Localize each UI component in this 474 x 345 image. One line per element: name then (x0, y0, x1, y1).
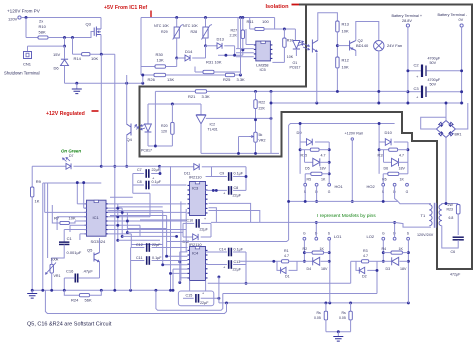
svg-text:R15: R15 (301, 154, 308, 158)
svg-text:IC4: IC4 (192, 251, 199, 256)
svg-text:0.05: 0.05 (314, 316, 321, 320)
capacitor C7 22uF (133, 173, 144, 175)
capacitor C1 0.001uF (63, 230, 65, 243)
wire MD2 D down to T1 (395, 186, 398, 201)
svg-text:22K: 22K (259, 107, 266, 111)
resistor R4 1K (383, 252, 391, 254)
svg-text:R10: R10 (39, 24, 47, 29)
svg-text:NTC 10K: NTC 10K (154, 24, 169, 28)
terminal 120V input (18, 16, 21, 19)
wire LO1 G column (303, 240, 305, 261)
svg-text:C6: C6 (451, 250, 456, 254)
svg-text:13K: 13K (157, 58, 164, 63)
resistor R9 1K (31, 187, 34, 197)
op-amp IC5 LM358 (256, 41, 271, 61)
wire IC3-C10 links (210, 223, 212, 237)
wire Q4 collector column (126, 83, 128, 124)
svg-text:22µF: 22µF (152, 243, 161, 247)
svg-text:18V: 18V (399, 167, 406, 171)
wire MD2 S down (382, 186, 384, 201)
svg-text:R20: R20 (161, 124, 168, 128)
svg-text:D7: D7 (69, 154, 74, 158)
wire C15 loop box (178, 291, 213, 306)
wire zener bottom to bus (64, 66, 66, 83)
wire aux row 183 (45, 182, 102, 184)
resistor R13 10K (336, 21, 339, 32)
transformer T1 (429, 205, 432, 210)
diode D2 (356, 261, 359, 270)
svg-text:56K: 56K (85, 298, 92, 303)
svg-text:+120V Rail: +120V Rail (345, 132, 363, 136)
wire Q3 source (100, 18, 102, 30)
zener D5 18V (305, 161, 313, 163)
wire +5V left drop (140, 18, 142, 76)
svg-text:G: G (328, 190, 331, 194)
svg-text:G: G (303, 232, 306, 236)
zener D6b 18V (384, 161, 392, 163)
svg-text:R25: R25 (223, 77, 231, 82)
optocoupler PC817 LED (feedback) (147, 104, 149, 124)
svg-text:10K: 10K (342, 65, 349, 70)
svg-text:1K: 1K (320, 247, 325, 251)
wire battery minus column (461, 27, 463, 103)
terminal MD1 D (315, 183, 318, 186)
svg-text:LO2: LO2 (367, 234, 375, 239)
node shunt taps (225, 301, 228, 304)
svg-text:22µF: 22µF (233, 268, 242, 272)
wire IC3 HO route (209, 203, 251, 222)
svg-text:D5: D5 (305, 167, 310, 171)
svg-text:.47µF: .47µF (83, 269, 94, 274)
svg-text:VR2: VR2 (259, 139, 266, 143)
resistor R21 3.3K (155, 90, 195, 92)
node bottom bus (31, 289, 34, 292)
wire C14/C13 right vertical (245, 252, 247, 283)
driver IC3 IR2110 (190, 182, 206, 216)
svg-text:1K: 1K (400, 178, 405, 182)
svg-text:6.8: 6.8 (449, 216, 454, 220)
svg-text:SG3524: SG3524 (91, 239, 106, 244)
wire signal row 293 (223, 293, 377, 295)
svg-text:Battery Terminal +: Battery Terminal + (392, 14, 423, 18)
wire D13 out drop (234, 46, 236, 55)
bridge rectifier BR1 (436, 121, 455, 138)
wire return row 313 long (45, 290, 226, 313)
terminal battery minus (460, 24, 463, 27)
capacitor C6 472pF (453, 236, 464, 238)
wire row 210.7 (108, 210, 163, 212)
terminal +120V rail stub (351, 138, 353, 140)
svg-text:0.05: 0.05 (339, 316, 346, 320)
svg-text:C8: C8 (137, 180, 142, 184)
node top rail junction (25, 16, 28, 19)
svg-text:24V Fan: 24V Fan (387, 43, 402, 48)
wire T1 secondary loop / snubber (442, 204, 458, 205)
svg-text:R27: R27 (231, 29, 238, 33)
svg-text:C8: C8 (234, 186, 239, 190)
wire Q2 collector stub (355, 50, 357, 56)
svg-text:58K: 58K (39, 30, 46, 35)
wire LO2 D up (394, 222, 396, 237)
potentiometer VR2 5k (254, 132, 257, 142)
wire +12V rail B (114, 54, 116, 290)
resistor R19 4.7 (379, 149, 389, 151)
isolation barrier boundary (140, 5, 473, 270)
svg-text:4700µF: 4700µF (428, 57, 441, 61)
svg-text:10K: 10K (287, 55, 294, 59)
capacitor C9 0.1uF (206, 176, 227, 178)
wire IC1 pin6 (70, 224, 86, 226)
diode D11 (160, 166, 194, 168)
wire Q4 emitter column (126, 135, 128, 166)
svg-text:0.1µF: 0.1µF (234, 248, 244, 252)
terminal LO1 S (328, 237, 331, 240)
svg-text:15V: 15V (53, 52, 60, 57)
svg-text:NTC 10K: NTC 10K (183, 24, 198, 28)
capacitor C15 22uF (183, 297, 194, 299)
capacitor C2 4700uF (408, 70, 421, 72)
svg-text:120V/24V: 120V/24V (417, 233, 434, 237)
svg-text:I represent Mosfets by pins: I represent Mosfets by pins (317, 213, 376, 219)
resistor R3 4.7 (351, 260, 362, 262)
svg-text:4.7: 4.7 (363, 254, 368, 258)
resistor R7 10K (69, 221, 75, 223)
zener diode D6 15V (61, 58, 68, 60)
svg-text:1K: 1K (35, 199, 40, 204)
LED D7 (32, 165, 66, 167)
svg-text:TL431: TL431 (208, 128, 218, 132)
svg-text:C16: C16 (66, 269, 74, 274)
svg-text:22µF: 22µF (152, 168, 161, 172)
fan 24V (374, 41, 384, 51)
node lattice dots (116, 207, 119, 210)
wire D11 to C9 row (211, 167, 213, 177)
svg-text:10K: 10K (91, 56, 98, 61)
svg-text:4.7: 4.7 (399, 154, 404, 158)
resistor R27 2.2K (242, 18, 244, 31)
wire IC1 left pin wires (77, 203, 86, 205)
svg-text:R26: R26 (148, 77, 156, 82)
svg-text:D11: D11 (184, 172, 190, 176)
wire Q2 emitter loop to fan (356, 22, 379, 41)
diode D10 (379, 141, 385, 143)
svg-text:50V: 50V (430, 83, 437, 87)
svg-text:50V: 50V (430, 61, 437, 65)
wire zener top (64, 46, 66, 59)
svg-text:+: + (204, 217, 206, 221)
svg-text:R4: R4 (382, 247, 387, 251)
wire row283 riser to R3 (350, 261, 352, 283)
wire lattice extra rows (110, 196, 133, 198)
wire +120V rail drop (351, 140, 353, 201)
wire red tick +5V (150, 11, 152, 18)
wire gnd stem (337, 332, 339, 337)
svg-text:R30: R30 (156, 52, 164, 57)
svg-text:R13: R13 (342, 22, 350, 27)
svg-text:C7: C7 (137, 168, 142, 172)
svg-text:+: + (202, 292, 204, 296)
svg-text:3.3K: 3.3K (237, 77, 246, 82)
resistor R20 120 (171, 104, 173, 122)
svg-text:R9: R9 (36, 179, 42, 184)
terminal MD2 S (382, 183, 385, 186)
wire top rail left (21, 17, 101, 19)
wire R10 right to Q3 gate (48, 32, 94, 38)
svg-text:Battery Terminal -: Battery Terminal - (438, 13, 468, 17)
svg-text:28.8V: 28.8V (402, 19, 412, 23)
terminal LO1 G (303, 237, 306, 240)
svg-text:IR2110: IR2110 (189, 175, 202, 180)
svg-text:10K: 10K (69, 216, 76, 221)
svg-text:C2: C2 (414, 63, 420, 68)
svg-text:0.1µF: 0.1µF (234, 172, 244, 176)
transistor Q3 mosfet (93, 28, 95, 36)
svg-text:2W: 2W (448, 203, 454, 207)
svg-text:G: G (382, 232, 385, 236)
svg-text:13K: 13K (167, 77, 174, 82)
node gnd taps (75, 82, 78, 85)
ground symbol primary (72, 89, 82, 94)
svg-text:R31 10K: R31 10K (206, 60, 222, 65)
node D7 out (100, 165, 103, 168)
svg-text:R11: R11 (247, 19, 255, 24)
svg-text:1K: 1K (399, 247, 404, 251)
terminal LO2 G (382, 237, 385, 240)
svg-text:+12V Regulated: +12V Regulated (46, 111, 85, 117)
svg-text:C13: C13 (234, 260, 241, 264)
wire LO1 S column (329, 240, 331, 303)
svg-text:C1: C1 (67, 236, 73, 241)
capacitor C16 .47uF (64, 277, 74, 279)
wire MD1 D down (316, 186, 318, 201)
svg-text:1K: 1K (321, 178, 326, 182)
resistor R26 (141, 74, 154, 76)
svg-text:R12: R12 (342, 58, 350, 63)
svg-text:2x: 2x (39, 19, 43, 24)
resistor Rs2 0.05 (350, 303, 352, 311)
wire R28 bottom (205, 38, 207, 46)
svg-text:BR1: BR1 (455, 133, 462, 137)
wire aux verticals (42, 183, 44, 290)
driver IC4 IR2110 (190, 247, 206, 281)
svg-text:Rs: Rs (317, 311, 322, 315)
svg-text:5k: 5k (259, 133, 263, 137)
svg-text:R3: R3 (363, 249, 368, 253)
svg-text:R28: R28 (191, 30, 198, 34)
svg-text:D1: D1 (285, 275, 290, 279)
svg-text:C14: C14 (219, 248, 226, 252)
wire IC3 LO route (209, 211, 260, 223)
wire T1 primary top row (289, 200, 398, 202)
wire fb bottom row (201, 152, 279, 154)
opto phototransistor Q1 out (311, 40, 313, 53)
ground symbol output (333, 337, 343, 342)
svg-text:R29: R29 (161, 30, 168, 34)
resistor R31 (195, 71, 203, 73)
svg-text:Q3: Q3 (86, 22, 92, 27)
phototransistor Q4 (130, 124, 132, 136)
svg-text:LO1: LO1 (334, 234, 342, 239)
wire secondary ground bus y103 (271, 102, 463, 104)
wire bus verticals (126, 75, 128, 83)
svg-text:0.001µF: 0.001µF (67, 250, 82, 255)
wire C15 return U (156, 290, 223, 310)
svg-text:T1: T1 (421, 213, 426, 218)
diode D13 (206, 45, 218, 47)
resistor R23 6.8 2W (456, 205, 460, 215)
svg-text:100: 100 (262, 19, 269, 24)
diode D12 (183, 236, 193, 238)
svg-text:R24: R24 (71, 298, 79, 303)
svg-text:D3: D3 (386, 267, 391, 271)
svg-text:D4: D4 (307, 267, 312, 271)
svg-text:4.7: 4.7 (321, 154, 326, 158)
wire D7 row to fb area (101, 165, 159, 167)
svg-text:CN1: CN1 (23, 62, 32, 67)
wire LO2 S column (407, 240, 409, 303)
red dash isolation (292, 4, 300, 6)
wire C9/C8b right vertical (245, 167, 247, 191)
svg-text:0.1µF: 0.1µF (152, 180, 162, 184)
svg-text:R7: R7 (54, 216, 60, 221)
wire c8 corner drop (132, 185, 134, 193)
wire gnd stub (76, 83, 78, 89)
resistor R22 22K (254, 90, 257, 93)
terminal MD1 S (304, 183, 307, 186)
wire fb loop left (154, 91, 156, 146)
wire C7 right link (159, 166, 161, 173)
wire IC1 pin8 (80, 233, 87, 235)
capacitor C10 22uF (183, 222, 194, 224)
wire MD2 left vertical (378, 142, 380, 174)
svg-text:Isolation: Isolation (266, 4, 290, 10)
wire signal row 283 (208, 282, 351, 284)
wire TL431 ref row (206, 117, 271, 119)
svg-text:C9: C9 (220, 172, 225, 176)
svg-text:22µF: 22µF (233, 194, 242, 198)
wire battery plus column (407, 27, 409, 103)
node +5V taps (175, 16, 178, 19)
svg-text:Q5: Q5 (87, 248, 93, 253)
connector CN1 (24, 52, 32, 59)
svg-text:VR1: VR1 (54, 274, 61, 278)
svg-text:18V: 18V (321, 267, 328, 271)
thermistor R29 NTC (176, 18, 178, 28)
svg-text:R5: R5 (307, 178, 312, 182)
node T1 bus junctions (445, 202, 448, 205)
svg-text:G: G (406, 190, 409, 194)
svg-text:IC2: IC2 (210, 123, 216, 127)
node R10 out (63, 36, 66, 39)
resistor R2 1K (304, 252, 312, 254)
wire IC4 row links (179, 252, 181, 283)
resistor R25 (225, 73, 234, 76)
wire row y193 (133, 192, 150, 194)
svg-text:18V: 18V (320, 167, 327, 171)
wire Q5 emitter (99, 262, 101, 278)
wire +5V rail (141, 17, 275, 19)
svg-text:2.2K: 2.2K (230, 34, 238, 38)
svg-text:D9: D9 (297, 130, 303, 135)
wire to R14 left (72, 38, 74, 55)
terminal LO1 D (315, 237, 318, 240)
wire BR1 bottom (445, 138, 447, 204)
resistor R15 4.7 (300, 149, 310, 151)
svg-text:C15: C15 (186, 294, 193, 298)
wire MD2 right vertical (407, 142, 409, 162)
terminal LO2 S (407, 237, 410, 240)
wire BR1 left loop (421, 117, 446, 129)
wire MD2 S column (382, 174, 384, 183)
wire MD1 left vertical (299, 130, 301, 174)
svg-text:Q5, C16 &R24 are Softstart Cir: Q5, C16 &R24 are Softstart Circuit (27, 321, 112, 327)
diode D9 (300, 141, 306, 143)
wire +12V rail A (100, 54, 102, 166)
svg-text:BD140: BD140 (356, 43, 369, 48)
terminal LO2 D (393, 237, 396, 240)
svg-text:PC817: PC817 (141, 149, 152, 153)
svg-text:C3: C3 (414, 86, 420, 91)
svg-text:R22: R22 (259, 101, 266, 105)
resistor R10 vertical (283, 29, 285, 38)
node R14 out (100, 53, 103, 56)
svg-text:R23: R23 (447, 208, 453, 212)
resistor R11 100 (255, 27, 264, 30)
svg-text:+5V From IC1 Ref: +5V From IC1 Ref (104, 5, 147, 11)
ground symbol softstart (31, 290, 33, 293)
optocoupler O1 PC817 LED (294, 29, 296, 41)
terminal battery plus (406, 24, 409, 27)
svg-text:R1: R1 (284, 249, 289, 253)
svg-text:IC5: IC5 (260, 67, 267, 72)
svg-text:22µF: 22µF (200, 301, 209, 305)
wire lattice rows lower (118, 239, 160, 241)
svg-text:IC3: IC3 (192, 186, 199, 191)
wire fb top row (148, 103, 201, 105)
transistor Q5 (93, 253, 95, 262)
resistor Rs1 0.05 (325, 303, 327, 311)
capacitor C13 22uF (206, 264, 227, 266)
diode D14 (177, 57, 185, 59)
svg-text:100k: 100k (51, 258, 59, 262)
svg-text:22µF: 22µF (200, 228, 209, 232)
svg-text:R6: R6 (382, 178, 387, 182)
svg-text:R21: R21 (188, 94, 196, 99)
diode D1 (277, 261, 281, 270)
svg-text:C12: C12 (136, 243, 143, 247)
svg-text:472µF: 472µF (450, 273, 461, 277)
wire IC1 pin7 to C1 (64, 229, 86, 231)
svg-text:120V: 120V (8, 17, 18, 22)
svg-text:R2: R2 (303, 247, 308, 251)
shunt regulator IC2 TL431 (200, 104, 202, 115)
svg-text:Rs: Rs (342, 311, 347, 315)
wire BR1 top to bus (445, 103, 447, 121)
resistor R12 10K (336, 57, 339, 68)
terminal MD1 G (328, 183, 331, 186)
terminal MD2 G (406, 183, 409, 186)
zener D3 18V (383, 260, 391, 262)
wire down to R10 (25, 18, 27, 38)
wire R10 left (26, 37, 38, 39)
svg-text:R14: R14 (74, 56, 82, 61)
wire opto emitter down (316, 53, 318, 104)
wire row293 riser (376, 261, 378, 293)
svg-text:HO2: HO2 (367, 184, 376, 189)
wire R25 feed vertical (240, 18, 242, 76)
wire lattice verticals (117, 204, 119, 240)
svg-text:120: 120 (161, 130, 167, 134)
